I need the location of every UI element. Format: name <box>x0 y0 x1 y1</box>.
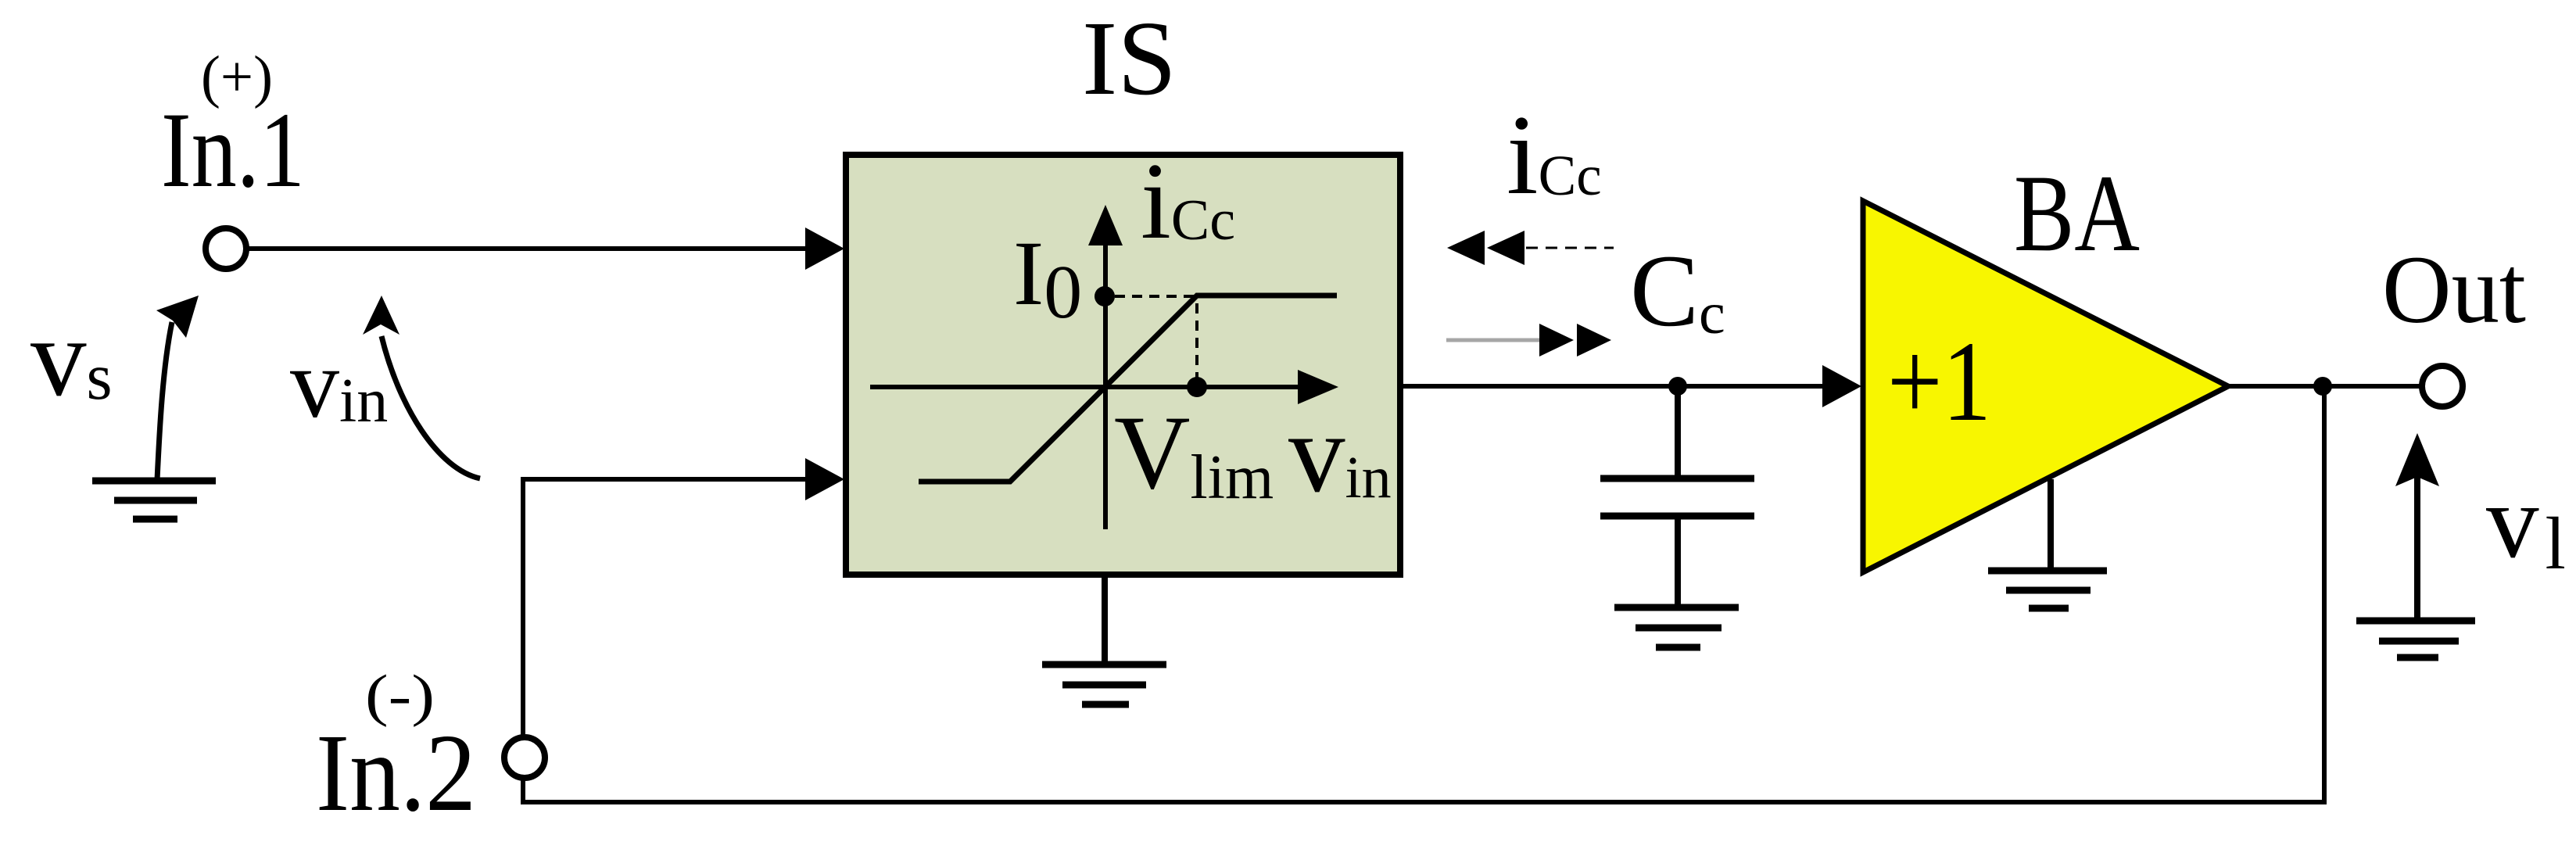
svg-text:In.1: In.1 <box>161 90 305 210</box>
svg-text:Out: Out <box>2382 236 2526 343</box>
svg-text:+1: +1 <box>1887 317 1991 445</box>
svg-text:In.2: In.2 <box>316 711 476 834</box>
svg-text:IS: IS <box>1082 0 1177 117</box>
svg-text:BA: BA <box>2014 152 2140 274</box>
